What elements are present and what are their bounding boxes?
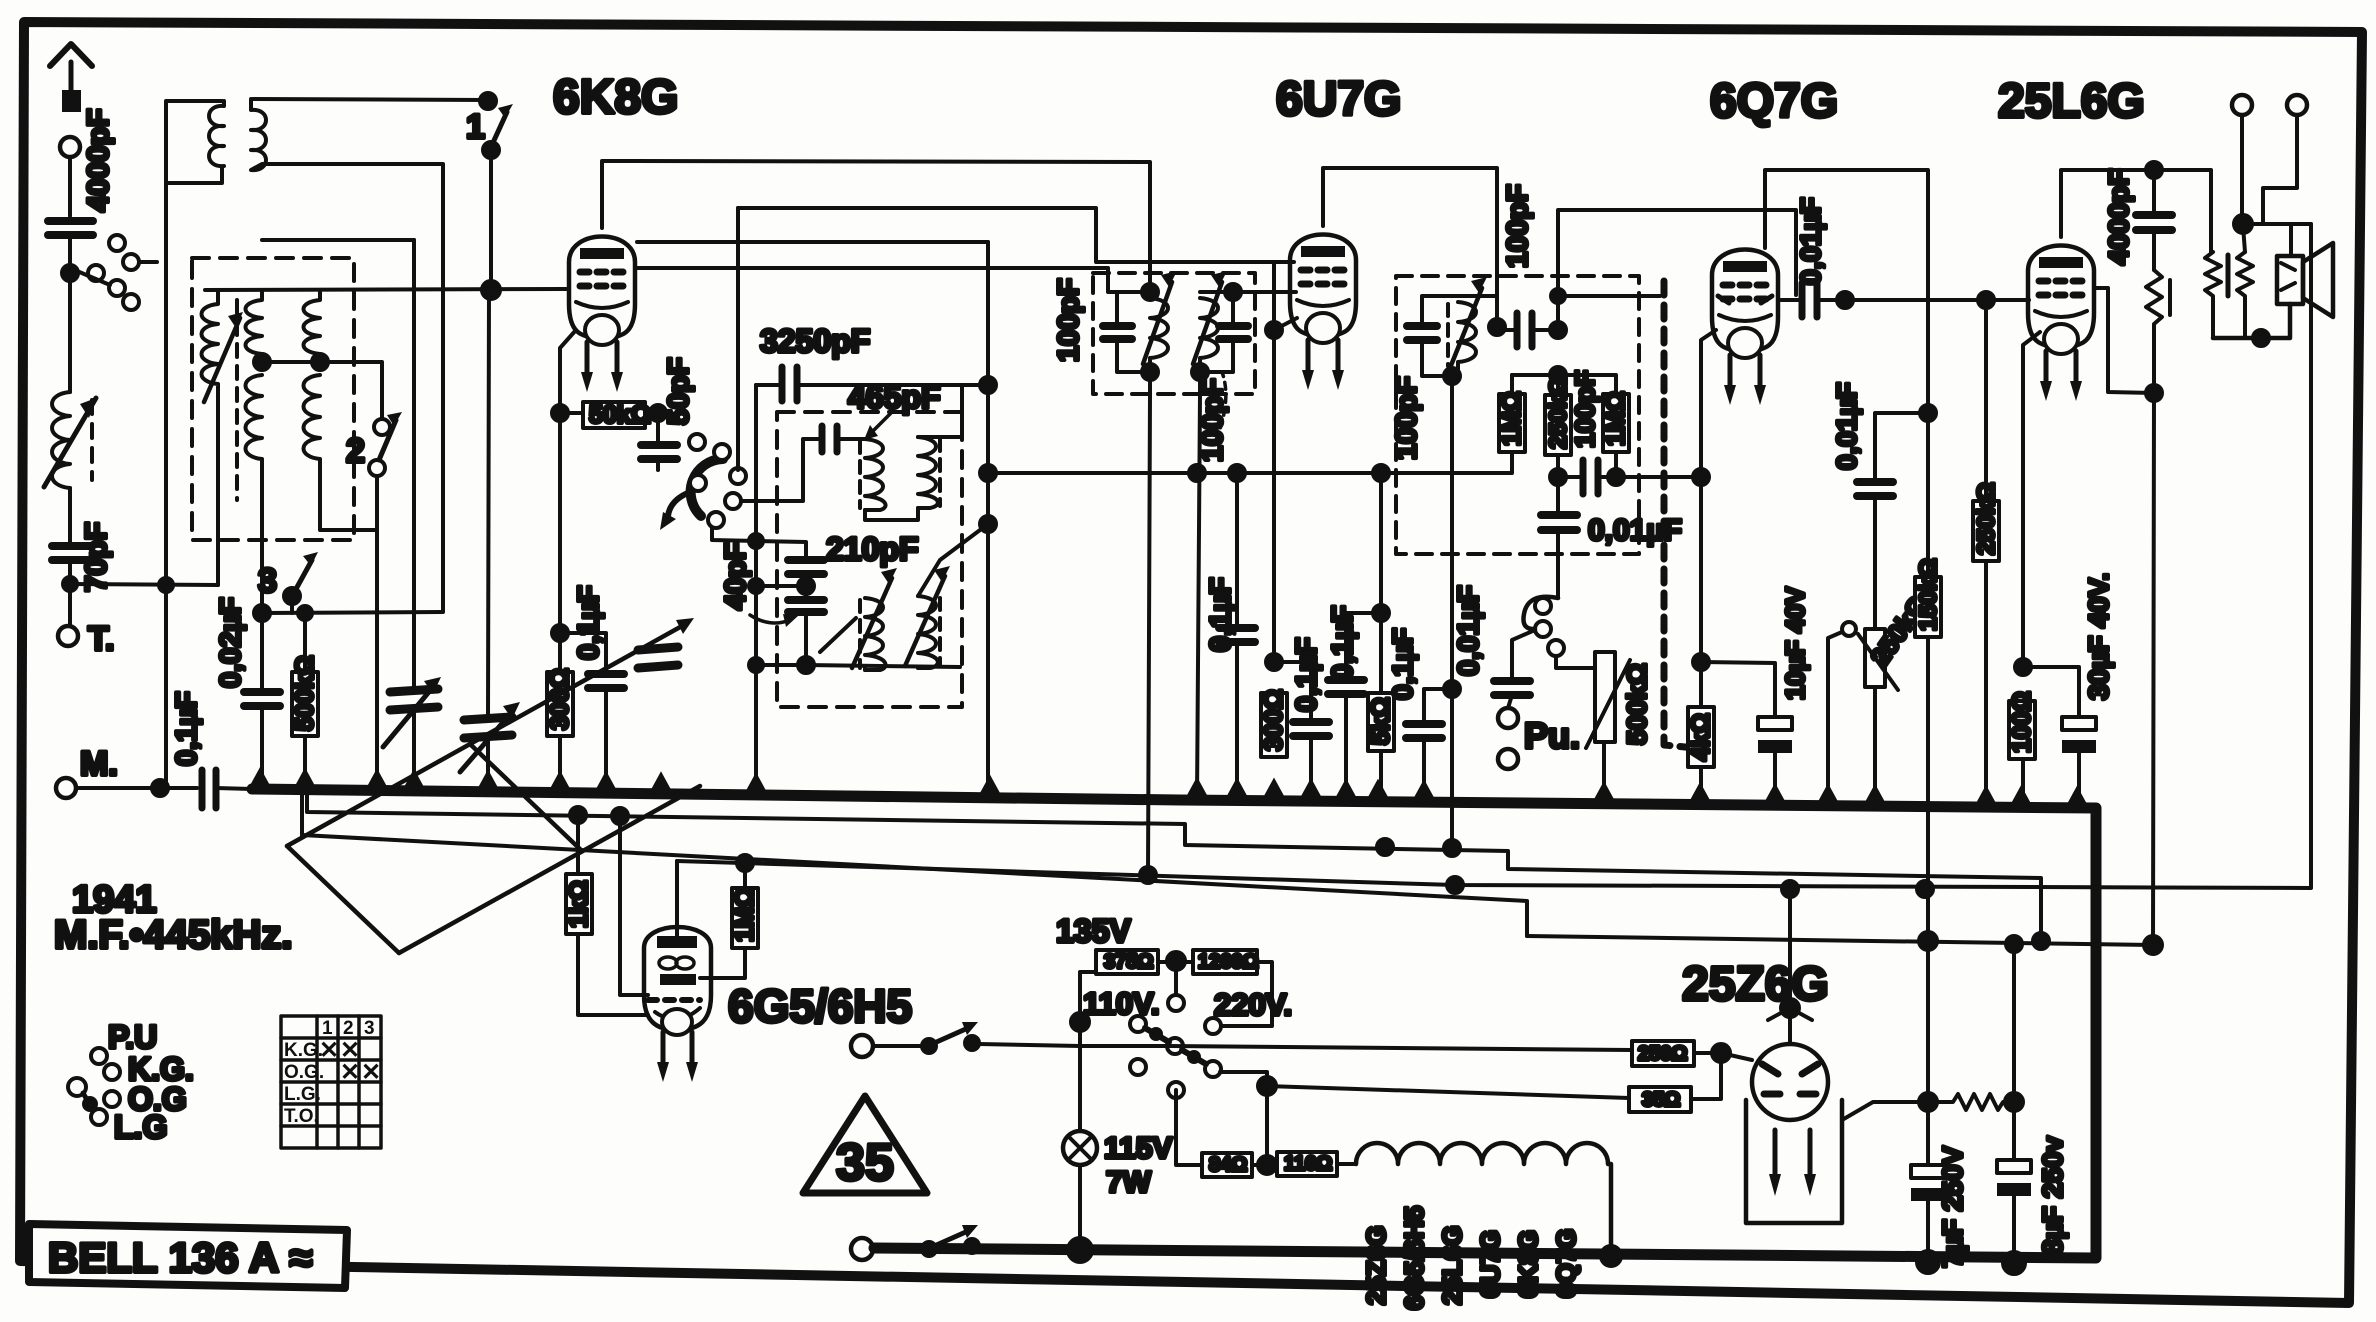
capacitor 210pF upper [788, 531, 918, 598]
svg-text:2: 2 [346, 432, 365, 470]
capacitor 0,01uF coupling [1781, 197, 2029, 317]
wire 6K8G anode top [602, 161, 1150, 292]
coil L3 upper [246, 290, 263, 362]
electrolytic 10uF 40V [1701, 586, 1810, 805]
wire IFT1 primary bottom long drop [1148, 394, 1150, 875]
svg-text:0,1µF: 0,1µF [171, 691, 203, 766]
heater chain [1356, 1143, 1611, 1256]
svg-text:L.G: L.G [114, 1109, 167, 1145]
coil L2a [202, 290, 244, 404]
dial cord diagonal long 2 [399, 786, 700, 953]
svg-text:6U7G: 6U7G [1276, 73, 1401, 126]
rotary band switch [660, 434, 746, 530]
IFT1 secondary cap [1200, 284, 1248, 372]
wire diode load node [1550, 367, 1566, 383]
svg-text:3: 3 [364, 1018, 375, 1039]
terminal M. [56, 778, 76, 798]
svg-text:0,01µF: 0,01µF [1453, 585, 1485, 676]
variable capacitor tuning A [383, 240, 441, 790]
svg-text:35Ω: 35Ω [1642, 1089, 1680, 1111]
node junction 70pF [63, 577, 77, 591]
switch upper [873, 1022, 1080, 1053]
svg-text:1MΩ: 1MΩ [1602, 391, 1630, 446]
node antenna switch [62, 265, 78, 281]
filter choke zigzag [1928, 1094, 2014, 1110]
resistor 116 Ohm [1277, 1152, 1356, 1176]
svg-text:100pF: 100pF [1197, 378, 1229, 462]
svg-text:✕: ✕ [361, 1059, 381, 1086]
wire 6Q7G plate [1765, 170, 1928, 941]
wire M junction up to antenna coil [166, 101, 222, 788]
svg-text:6Q7G: 6Q7G [1551, 1229, 1581, 1298]
variable inductor antenna rod [44, 392, 96, 488]
node osc bottom [798, 657, 814, 673]
antenna selector contacts [77, 235, 157, 310]
resistor 300 Ohm left [546, 633, 574, 791]
wire 465pF right to coil V7 [837, 437, 865, 441]
bus connection blobs [248, 767, 2089, 808]
svg-text:25Z6G: 25Z6G [1361, 1226, 1391, 1306]
pilot lamp [1063, 1046, 1172, 1250]
wire cathode chain down [560, 413, 606, 672]
wire down to rod coil [68, 281, 72, 392]
wire [68, 157, 72, 216]
volume switch contacts [1523, 597, 1604, 668]
svg-text:115V: 115V [1104, 1132, 1172, 1165]
svg-text:4kΩ: 4kΩ [1687, 713, 1715, 761]
wire rotary to 210pF [712, 528, 806, 556]
wire 6G5 grid [620, 816, 648, 995]
antenna terminal [60, 137, 80, 157]
wire L1 secondary bottom to vertical [268, 164, 443, 612]
svg-text:T.: T. [88, 620, 114, 658]
wire 6K8G cathode [560, 330, 576, 413]
wire IFT2 top to grid cap [1458, 296, 1497, 327]
svg-text:10µF 40V: 10µF 40V [1780, 586, 1810, 700]
mains terminal lower [851, 1238, 873, 1260]
svg-text:P.U: P.U [108, 1019, 157, 1055]
svg-text:Pu.: Pu. [1524, 715, 1580, 756]
svg-text:0,02µF: 0,02µF [215, 597, 247, 688]
svg-text:6G5/6H5: 6G5/6H5 [728, 980, 912, 1032]
wire L6 top [918, 524, 988, 596]
tube 6K8G [569, 237, 635, 393]
IFT2 tuned cap [1407, 296, 1458, 376]
svg-text:1MΩ: 1MΩ [1498, 391, 1526, 446]
svg-text:100pF: 100pF [1502, 184, 1534, 268]
heater chain labels [1361, 1206, 1581, 1310]
svg-text:6Q7G: 6Q7G [1710, 75, 1838, 128]
svg-text:100pF: 100pF [1570, 370, 1600, 448]
potentiometer 250k tone [1828, 590, 1934, 806]
svg-text:1: 1 [322, 1018, 333, 1039]
svg-text:500kΩ: 500kΩ [291, 655, 319, 731]
resistor zigzag snubber [2146, 270, 2162, 393]
svg-text:1kΩ: 1kΩ [565, 880, 593, 928]
wire cathode down to 4k [1699, 477, 1703, 662]
svg-text:✕: ✕ [319, 1037, 339, 1064]
svg-text:1260Ω: 1260Ω [1198, 951, 1259, 973]
svg-text:50pF: 50pF [663, 357, 695, 425]
IFT1 primary cap [1103, 292, 1150, 372]
osc coil L5 [852, 568, 897, 670]
IFT1 primary coil [1142, 271, 1177, 380]
wire screen drop [986, 242, 990, 795]
PU jacks [1498, 695, 1580, 769]
node cathode 50k [552, 405, 568, 421]
resistor 1M right [1558, 375, 1630, 485]
svg-text:1MΩ: 1MΩ [731, 887, 759, 942]
wire L5 bottom L6 bottom to line [865, 667, 918, 670]
dial cord cross 2 [470, 744, 582, 851]
node rowC joints [737, 855, 753, 871]
wire L4 bottom to switch2 [320, 476, 377, 530]
dial cord cross 1 [287, 846, 399, 953]
svg-text:30µF 40V.: 30µF 40V. [2083, 573, 2114, 700]
svg-text:4000pF: 4000pF [82, 109, 115, 212]
triangle 35 [803, 1096, 927, 1193]
wire 6U7G screen cathode drop [1272, 262, 1276, 662]
svg-text:K.G.: K.G. [284, 1040, 323, 1061]
6Q7G diode plates [1718, 296, 1772, 303]
node L3 tap [254, 354, 270, 370]
svg-text:135V: 135V [1056, 913, 1131, 949]
wire IFT1 secondary AVC drop [1197, 394, 1200, 799]
output transformer primary [2205, 252, 2221, 338]
capacitor 100pF diode [1558, 370, 1616, 494]
capacitor 100pF grid 6Q7G [1497, 184, 1566, 347]
resistor 250k mid [1545, 375, 1572, 513]
node 0,02uF top [254, 605, 270, 621]
resistor 1M 6G5 [700, 863, 759, 978]
wire 6G5 plate [675, 861, 679, 936]
wire avc to right [1616, 475, 1701, 479]
resistor 150k [1915, 558, 1942, 637]
wire B+ riser [2153, 393, 2154, 945]
svg-text:40pF: 40pF [720, 542, 752, 610]
svg-text:150kΩ: 150kΩ [1915, 558, 1942, 631]
svg-text:100pF: 100pF [1053, 278, 1085, 362]
wire 6K8G screen line [637, 240, 988, 244]
variable capacitor tuning B [460, 290, 520, 790]
node osc grid [482, 281, 500, 299]
resistor 1k [565, 815, 648, 1015]
svg-text:2: 2 [343, 1018, 354, 1039]
svg-text:250kΩ: 250kΩ [1973, 482, 2000, 555]
mains terminal upper [851, 1035, 873, 1057]
svg-text:7W: 7W [1106, 1166, 1152, 1199]
svg-text:50kΩ: 50kΩ [589, 401, 651, 429]
wire L2a bottom [216, 404, 220, 585]
wire tap line to switch 2 [262, 362, 382, 420]
wire L3 bottom down [260, 504, 264, 613]
coil L4 lower [304, 375, 321, 504]
electrolytic 7uF 250V [1911, 1102, 1968, 1273]
svg-text:84Ω: 84Ω [1209, 1154, 1247, 1176]
svg-text:0,01µF: 0,01µF [1588, 514, 1682, 547]
svg-text:250kΩ: 250kΩ [1545, 376, 1572, 449]
wire osc bottom line [756, 665, 960, 667]
wire terminal leads [2240, 115, 2244, 224]
svg-text:0,01µF: 0,01µF [1831, 382, 1862, 470]
wire speaker bottom loop [2213, 304, 2290, 338]
resistor 50kOhm [560, 401, 672, 429]
resistor 250 Ohm [1169, 1041, 1730, 1066]
harness row C [677, 224, 2311, 888]
node 3250 right [980, 377, 996, 393]
wire 6Q7G cathode [1701, 330, 1716, 477]
svg-text:3250pF: 3250pF [760, 323, 870, 359]
wire switch1 down through grid node [489, 150, 493, 290]
shield dashed line [1664, 281, 1695, 748]
capacitor 0,1uF cathode right [1274, 637, 1329, 800]
wire grid2 vertical [736, 208, 740, 470]
svg-text:300Ω: 300Ω [1260, 689, 1288, 751]
svg-text:4000pF: 4000pF [2103, 169, 2134, 266]
node L4 tap [312, 354, 328, 370]
speaker [2277, 243, 2333, 317]
switch 3 [258, 552, 318, 613]
svg-text:25L6G: 25L6G [1998, 75, 2145, 128]
wire coil mid line [262, 238, 414, 242]
node 210pF mid [798, 578, 814, 594]
wire to 35 Ohm [1267, 1086, 1629, 1098]
label 40pF [720, 542, 798, 627]
wire screen bus y473 [988, 471, 1511, 475]
potentiometer 500k volume [1586, 652, 1652, 803]
wire [68, 488, 72, 543]
antenna symbol [50, 44, 92, 112]
svg-text:220V.: 220V. [1214, 987, 1292, 1022]
wire 25L6G plate [2061, 170, 2211, 252]
wire M to bus [76, 786, 197, 790]
switch lower [873, 1225, 1080, 1256]
tube 6U7G [1290, 235, 1356, 391]
svg-text:M.: M. [80, 745, 118, 783]
svg-text:250Ω: 250Ω [1638, 1043, 1687, 1065]
electrolytic 30uF 40V [2023, 573, 2114, 808]
svg-text:110V.: 110V. [1083, 986, 1159, 1021]
svg-text:6K8G: 6K8G [553, 71, 678, 124]
speaker terminals [2232, 95, 2252, 115]
wire 6Q7G grid top route [1558, 210, 1796, 330]
svg-text:0,1µF: 0,1µF [573, 585, 605, 660]
svg-text:25Z6G: 25Z6G [1682, 958, 1829, 1011]
switch 1 [466, 104, 513, 158]
wire 6K8G grid2 top line [738, 208, 1294, 262]
svg-text:0,1µF: 0,1µF [1327, 605, 1359, 680]
antenna transformer top coil L1 [209, 99, 268, 170]
svg-text:210pF: 210pF [826, 531, 918, 567]
transformer core [2226, 255, 2231, 296]
svg-text:0,01µF: 0,01µF [1795, 197, 1826, 285]
wire 465pF left to switch [741, 439, 822, 501]
resistor 500k [291, 613, 319, 790]
svg-text:6K8G: 6K8G [1513, 1230, 1543, 1298]
capacitor 0,1uF screen [1189, 465, 1255, 799]
IF transformer 2 dashed box [1396, 276, 1639, 554]
wire [68, 560, 72, 626]
resistor 100 Ohm [2008, 691, 2036, 807]
osc coil L6 [905, 566, 950, 668]
resistor 84 Ohm [1176, 1090, 1277, 1177]
capacitor 70pF [52, 522, 113, 592]
wire top line to switch 1 [253, 99, 486, 100]
oscillator dashed box [777, 412, 962, 707]
wire IFT1 secondary to 6U7G grid [1200, 290, 1296, 294]
wire 25L6G screen loop [2094, 288, 2154, 393]
svg-text:25L6G: 25L6G [1437, 1226, 1467, 1306]
wire band switch common [262, 612, 442, 613]
socket P.U terminals [68, 1019, 194, 1145]
harness row D [1527, 936, 2153, 945]
svg-text:BELL 136 A ≈: BELL 136 A ≈ [48, 1234, 312, 1281]
wire selector output [1220, 1072, 1267, 1165]
svg-text:35: 35 [836, 1134, 894, 1192]
capacitor 210pF lower [788, 600, 824, 665]
wire 6U7G plate top [1323, 168, 1497, 327]
variable cap C on diagonal [638, 647, 678, 668]
svg-text:O.G.: O.G. [284, 1062, 324, 1083]
capacitor 0,01uF af [1541, 514, 1682, 598]
resistor 300 Ohm 6U7G [1260, 689, 1288, 757]
svg-text:6U7G: 6U7G [1475, 1230, 1505, 1298]
capacitor 0,02uF [215, 597, 280, 790]
coil L3 lower [246, 375, 263, 504]
svg-text:70pF: 70pF [80, 522, 113, 592]
dial cord diagonal long 1 [287, 618, 694, 846]
output transformer secondary [2237, 252, 2253, 338]
resistor 5k [1367, 613, 1395, 800]
node switch 1 top [480, 93, 496, 109]
coil L4 upper [304, 290, 321, 362]
osc coil V8 [918, 437, 940, 508]
osc coil V7 [860, 439, 886, 510]
capacitor 0,1uF series M [171, 691, 216, 808]
voltage selector [1056, 913, 1292, 1098]
tube 6G5/6H5 [644, 927, 711, 1082]
resistor 35 Ohm [1629, 1053, 1721, 1112]
capacitor 50pF [641, 357, 695, 470]
tube 25L6G [2028, 246, 2094, 402]
svg-text:0,1µF: 0,1µF [1387, 628, 1418, 700]
resistor 250k grid 25L6G [1973, 292, 2000, 807]
wire IFT1 bottoms down [1148, 372, 1152, 394]
wire 25L6G cathode [2023, 332, 2040, 667]
svg-text:8µF 250v: 8µF 250v [2037, 1136, 2068, 1255]
capacitor 465pF [822, 379, 940, 452]
band matrix table [281, 1016, 381, 1148]
svg-text:5kΩ: 5kΩ [1367, 697, 1395, 745]
wire grid line 6K8G [205, 289, 566, 290]
wire diode line drop [1379, 473, 1383, 613]
IFT2 coil [1444, 277, 1487, 384]
capacitor 0,1uF cathode [573, 585, 624, 791]
wire 6U7G cathode [1274, 318, 1297, 330]
wire V7 V8 bottoms [865, 508, 918, 520]
resistor 4k [1687, 662, 1715, 804]
capacitor 4000pF antenna [48, 109, 115, 235]
capacitor 4000pF output [2103, 169, 2172, 271]
coil L2b core [235, 300, 239, 500]
electrolytic 8uF 250V [1997, 1102, 2068, 1274]
node rowD joints [1919, 932, 1937, 950]
capacitor 0,01uF tone [1831, 382, 1936, 629]
tube 6Q7G [1712, 250, 1778, 406]
capacitor 3250pF [756, 323, 988, 401]
resistor 1M left [1498, 375, 1558, 473]
wire to coil line [70, 584, 218, 585]
svg-text:0,1µF: 0,1µF [1291, 637, 1323, 712]
node rowA joints [570, 807, 586, 823]
svg-text:100pF: 100pF [1391, 376, 1423, 460]
svg-text:100Ω: 100Ω [2008, 691, 2036, 753]
wire padder vertical [754, 385, 758, 795]
capacitor 0,1uF agc [1327, 605, 1389, 800]
wire rectifier output up [1926, 941, 1930, 1102]
harness row B [302, 790, 1527, 936]
capacitor 0,01uF PU [1453, 585, 1535, 695]
svg-text:7µF 250V: 7µF 250V [1937, 1146, 1968, 1268]
node M junction [152, 780, 168, 796]
svg-text:500kΩ: 500kΩ [1622, 663, 1652, 745]
svg-text:L.G.: L.G. [284, 1084, 321, 1105]
wire V8 top to right [918, 385, 988, 437]
svg-text:116Ω: 116Ω [1284, 1153, 1332, 1175]
harness row A [307, 790, 2041, 941]
wire mains live to selector [1080, 1044, 1169, 1048]
svg-text:1: 1 [466, 108, 485, 146]
IFT1 secondary coil [1192, 271, 1227, 380]
IF transformer 1 dashed box [1093, 273, 1255, 394]
trimmer arrow [820, 618, 856, 652]
antenna coil dashed box [192, 258, 354, 540]
wire 6K8G g-osc line [637, 268, 1117, 292]
wire [68, 235, 72, 273]
terminal T. [58, 626, 78, 646]
svg-text:T.O.: T.O. [284, 1106, 319, 1127]
switch 2 [346, 412, 402, 476]
title box BELL 136 A [29, 1224, 347, 1288]
selector lever [1130, 1016, 1146, 1032]
svg-text:✕: ✕ [340, 1059, 360, 1086]
svg-text:3: 3 [258, 562, 277, 600]
tube 25Z6G [1682, 881, 1937, 1223]
svg-text:M.F.•445kHz.: M.F.•445kHz. [54, 913, 293, 957]
svg-text:375Ω: 375Ω [1104, 951, 1153, 973]
wire stub to shield [1558, 294, 1660, 298]
wire padder line [756, 584, 806, 588]
